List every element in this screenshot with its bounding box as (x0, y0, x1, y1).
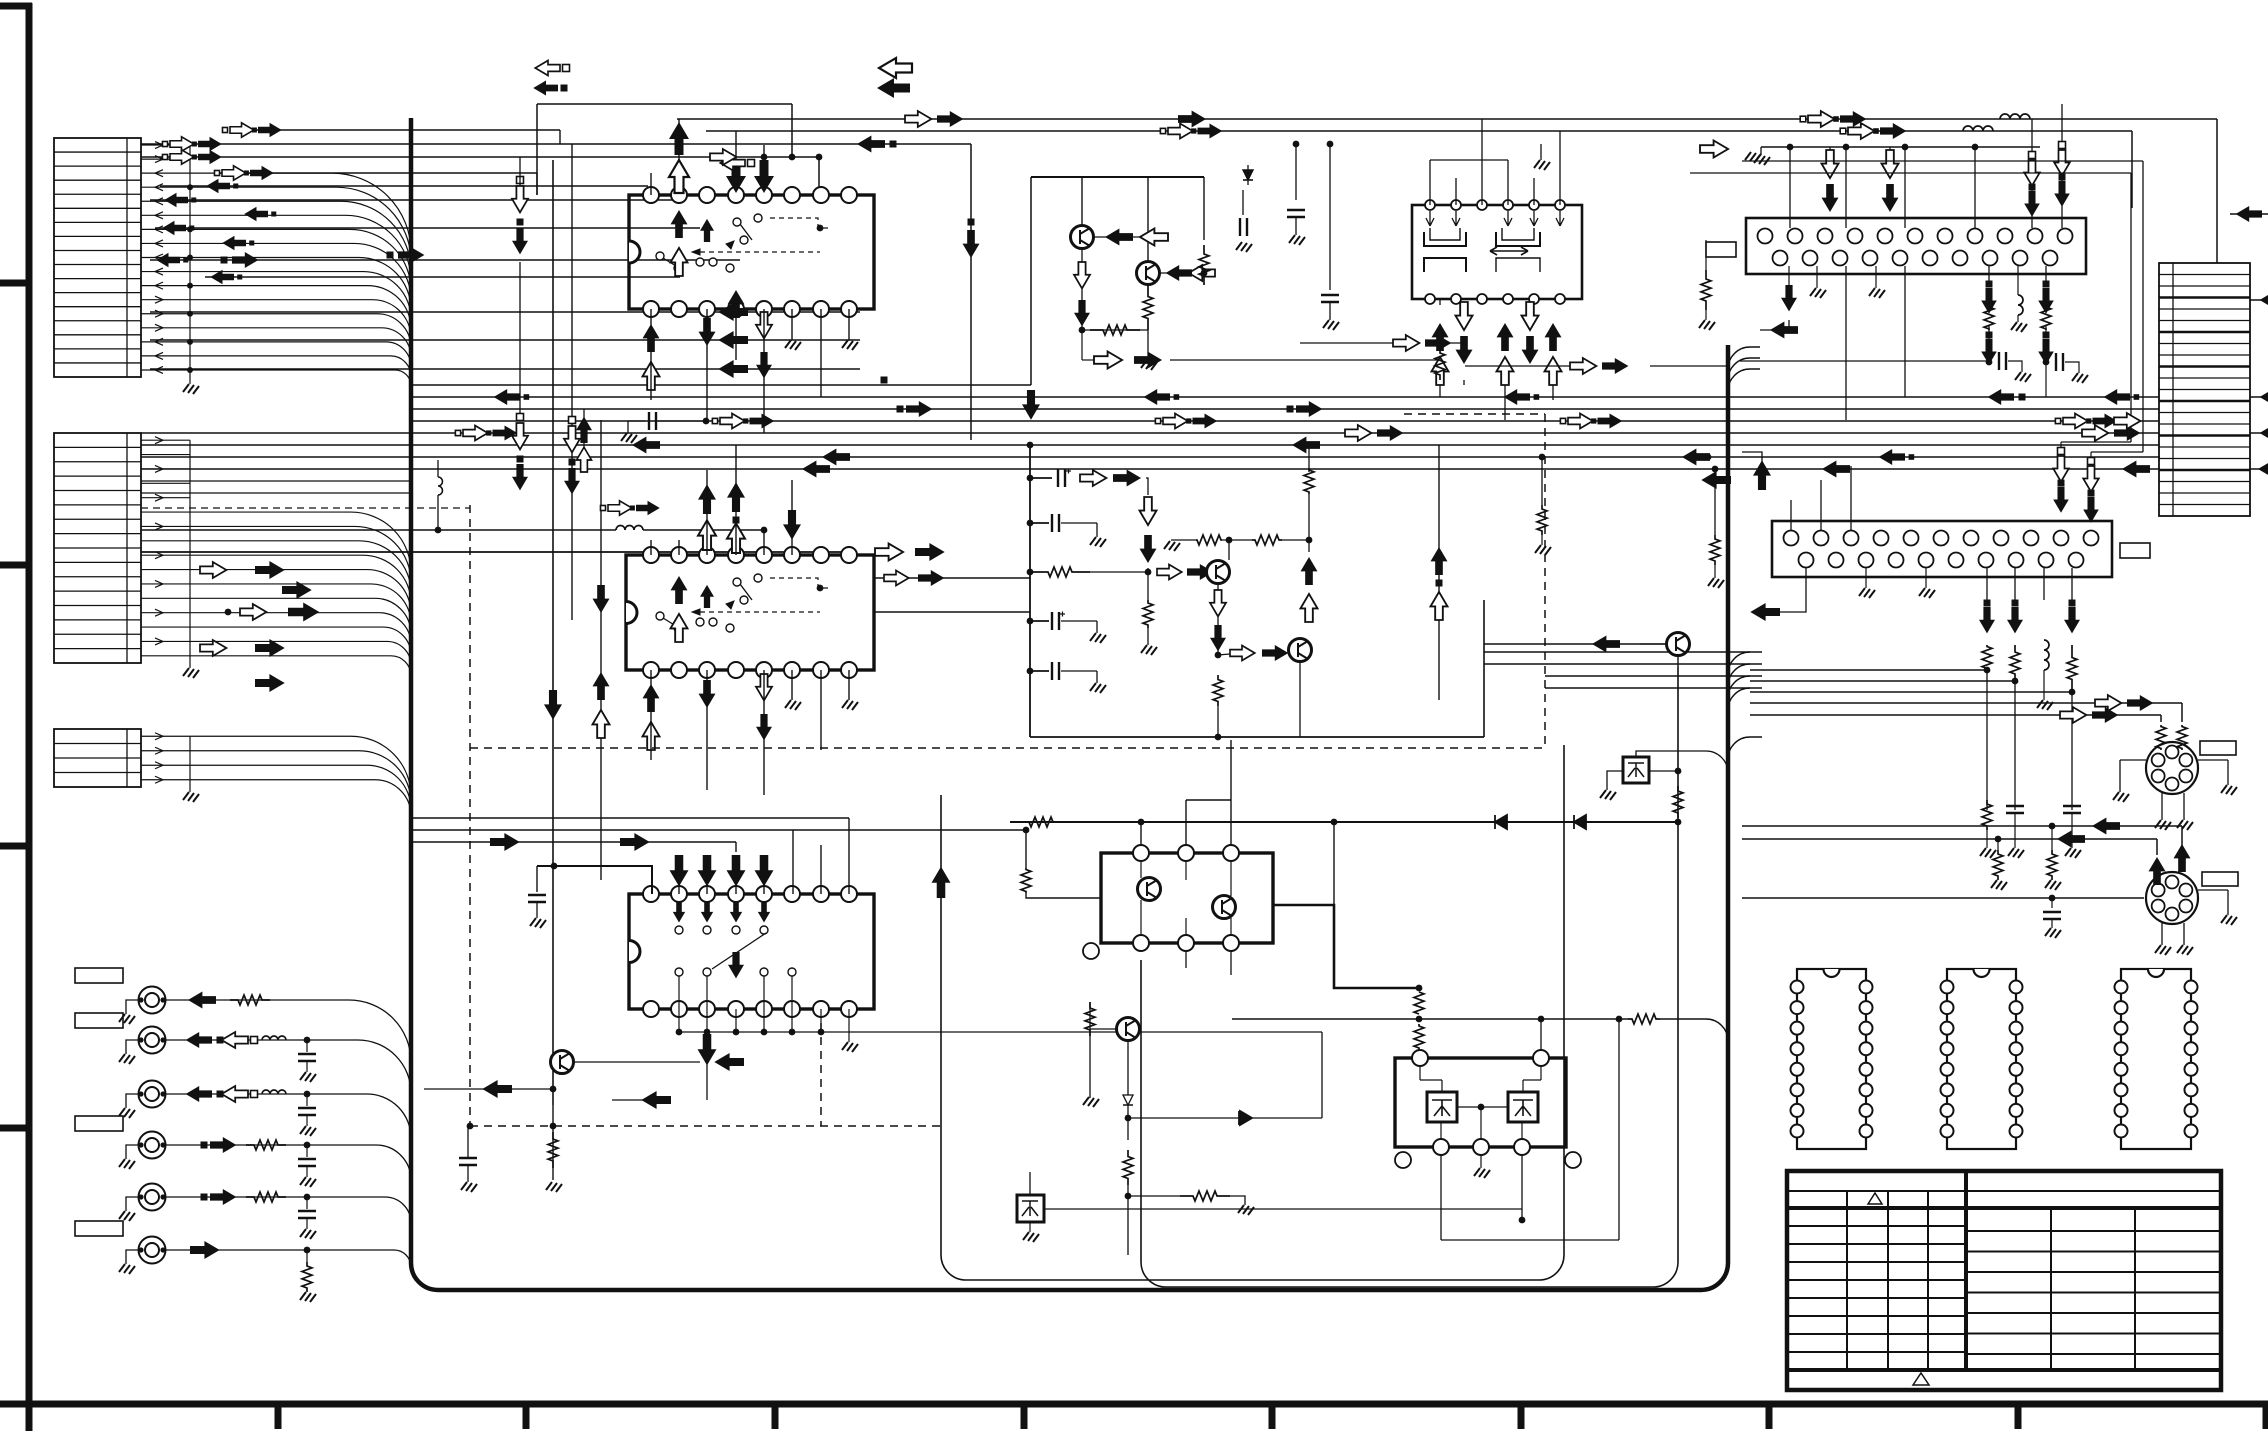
wire CN4 right stubs (2250, 299, 2268, 301)
connector CN3 (54, 729, 141, 787)
wire top right corner stub (2230, 213, 2268, 215)
wire (150, 199, 680, 201)
wire (1418, 1050, 1420, 1058)
wire (1170, 359, 1440, 361)
wire (536, 104, 538, 195)
arrow (1301, 557, 1318, 585)
arrow (2114, 425, 2140, 441)
arrow (482, 1080, 512, 1098)
arrow (726, 160, 746, 193)
arrow (533, 81, 558, 96)
arrow stack x520 lower (517, 414, 524, 421)
arrow (671, 248, 688, 276)
arrow (1822, 184, 1839, 212)
arrow (670, 855, 689, 886)
capacitor (2006, 805, 2024, 807)
arrow (564, 426, 580, 452)
arrow pair (2055, 418, 2060, 423)
wire (150, 339, 860, 341)
arrow vertical runs left of IC1 (517, 177, 524, 184)
arrow (1296, 401, 1322, 417)
column x1309 (1308, 445, 1310, 472)
wire (1146, 478, 1148, 495)
arrow (1144, 389, 1170, 405)
wire (1750, 669, 1987, 671)
resistor (2177, 725, 2187, 750)
wire (735, 131, 737, 160)
capacitor (298, 1053, 316, 1055)
arrow (170, 150, 194, 164)
arrow (463, 426, 488, 441)
arrow (494, 389, 520, 405)
arrow (1230, 646, 1255, 661)
arrow (288, 603, 319, 622)
arrow (240, 604, 266, 620)
resistor (1021, 868, 1031, 893)
opto coupler 1 (1017, 1195, 1044, 1222)
wire (412, 829, 1026, 831)
arrow (512, 423, 528, 449)
wire (574, 1061, 700, 1063)
arrow (1262, 645, 1288, 661)
arrow (1431, 547, 1448, 575)
arrow (593, 585, 610, 613)
wire dashed row (141, 507, 470, 509)
arrow (1178, 111, 1206, 128)
ground (119, 1264, 135, 1274)
resistor (230, 995, 270, 1005)
ground (2072, 373, 2088, 383)
wire (1081, 248, 1083, 330)
wire (150, 311, 860, 313)
arrow (756, 352, 772, 378)
wire cap stub 3 (1027, 668, 1034, 675)
arrow (544, 690, 562, 720)
arrow (1080, 470, 1106, 486)
arrow (1781, 285, 1797, 311)
ground (183, 792, 199, 802)
wire below B (1480, 1155, 1482, 1168)
connector CN2 (54, 433, 141, 663)
arrow (1074, 262, 1090, 288)
arrow (2122, 461, 2150, 478)
capacitor pol top (1027, 475, 1034, 482)
wire above IC4 (1761, 146, 2040, 148)
wire (706, 309, 708, 420)
ground (1083, 1097, 1099, 1107)
wire (1329, 144, 1331, 290)
arrow (201, 1194, 208, 1201)
arrow (2099, 444, 2101, 446)
arrow (1497, 357, 1514, 385)
arrow (1879, 449, 1905, 465)
arrow (932, 867, 951, 898)
ground (1859, 588, 1875, 598)
wire (820, 670, 822, 750)
wire (848, 309, 850, 340)
arrow (1497, 323, 1514, 351)
wire cap stub 2 (1027, 618, 1034, 625)
ground (2037, 700, 2053, 710)
arrow (728, 952, 744, 978)
arrow (222, 1032, 248, 1048)
wire above IC3 (678, 855, 680, 894)
transistor (1071, 226, 1094, 249)
resistor (1982, 800, 1992, 830)
arrow (1129, 816, 1131, 818)
arrow (2093, 414, 2118, 429)
arrow (1682, 449, 1710, 466)
arrow (2064, 607, 2080, 633)
arrow (1134, 352, 1162, 369)
arrow (718, 360, 748, 378)
resistor (2041, 306, 2051, 330)
arrow (1592, 636, 1620, 653)
arrow (2258, 461, 2268, 478)
arrow (783, 510, 801, 540)
wire (1059, 385, 1061, 415)
transistor emitter run (1217, 585, 1219, 655)
wire (763, 530, 765, 555)
wire jack line (163, 1000, 411, 1062)
wire (735, 309, 737, 360)
arrow (700, 219, 714, 242)
capacitor (536, 866, 538, 892)
arrow (756, 674, 772, 700)
arrow (2024, 160, 2040, 186)
arrow (2236, 206, 2262, 222)
wire (1127, 1041, 1129, 1090)
wire (412, 817, 849, 819)
wire (791, 480, 793, 555)
label box (2202, 872, 2238, 886)
wire (141, 551, 845, 553)
arrow (2053, 456, 2069, 482)
resistor (1196, 535, 1222, 545)
ground (2065, 848, 2081, 858)
wire (1750, 680, 2015, 682)
motor M2 (2146, 872, 2198, 924)
resistor (2156, 725, 2166, 750)
wire (650, 309, 652, 400)
IC U6 (1772, 521, 2112, 577)
wire mid box (1029, 445, 1031, 737)
wire main vertical bus (411, 118, 1728, 1290)
arrow (2260, 389, 2268, 405)
resistor (1030, 567, 1090, 577)
arrow (593, 710, 610, 738)
transistor (1289, 639, 1312, 662)
arrow (1345, 425, 1371, 441)
arrow (1882, 150, 1899, 178)
resistor below junction (1147, 572, 1149, 600)
arrow pair (162, 154, 167, 159)
wire CN4 feeds (2100, 268, 2159, 270)
wire (2071, 692, 2073, 810)
wire (1218, 654, 1230, 655)
wire top run 4 (141, 156, 819, 158)
ground (300, 1072, 316, 1082)
arrow (1210, 625, 1226, 651)
arrow (1456, 302, 1473, 330)
wire (1789, 147, 1791, 228)
capacitor (298, 1107, 316, 1109)
ground (2011, 322, 2027, 332)
arrow (671, 210, 688, 238)
arrow (643, 362, 660, 390)
wire (791, 309, 793, 340)
ground (1238, 1205, 1254, 1215)
wire (1059, 943, 1061, 1010)
wire (1740, 360, 1989, 362)
resistor (2047, 850, 2057, 880)
arrow (1301, 594, 1318, 622)
arrow pair (600, 505, 605, 510)
ground (461, 1182, 477, 1192)
wire dashed box (469, 505, 471, 1126)
arrow (593, 672, 610, 700)
ground (1535, 545, 1551, 555)
wire below IC4 (1788, 266, 1790, 285)
arrow (802, 461, 830, 478)
ground (119, 1014, 135, 1024)
arrow (698, 1034, 717, 1065)
revision table (1787, 1171, 2221, 1390)
arrow (671, 576, 688, 604)
wire (678, 540, 680, 555)
capacitor (528, 894, 546, 896)
wire jack line (163, 1250, 411, 1267)
SCR cell (1508, 1092, 1538, 1122)
ground (1289, 235, 1305, 245)
wire inner bundle B (1141, 667, 1678, 1287)
resistor (1199, 245, 1209, 285)
transistor (1207, 561, 1230, 584)
arrow (2095, 695, 2121, 711)
arrow (255, 674, 285, 692)
arrow (186, 1086, 212, 1102)
resistor (302, 1262, 312, 1292)
ground (1164, 541, 1180, 551)
ground (183, 384, 199, 394)
label box (75, 1116, 123, 1131)
wire mid bus 5 (141, 432, 2159, 434)
block A power pack (1101, 853, 1273, 943)
wire (1128, 1195, 1180, 1197)
arrow (877, 78, 910, 98)
ground (2008, 848, 2024, 858)
wire res x1542 (1539, 454, 1546, 461)
wire (2045, 362, 2047, 397)
wire (735, 842, 737, 852)
wire (1988, 325, 1990, 362)
resistor (1143, 600, 1153, 628)
wire (1333, 822, 1335, 905)
arrow (881, 377, 888, 384)
arrow (576, 417, 592, 443)
arrow (2054, 181, 2070, 207)
wire (1433, 342, 1464, 344)
wire (612, 1099, 671, 1101)
capacitor (1051, 662, 1053, 680)
arrow (1140, 535, 1157, 563)
arrow (1504, 389, 1530, 405)
arrow (198, 137, 222, 151)
wire y849 (821, 849, 941, 860)
ground (2045, 928, 2061, 938)
ground (842, 700, 858, 710)
arrow (2058, 448, 2065, 455)
wire (1295, 144, 1297, 200)
arrow (698, 855, 717, 886)
wire (1649, 770, 1678, 772)
arrow (512, 228, 528, 254)
arrow (754, 160, 774, 193)
ground (2221, 785, 2237, 795)
arrow (1432, 357, 1449, 385)
ground (530, 918, 546, 928)
wire (155, 227, 700, 229)
wire vertical x572 (571, 144, 573, 620)
wire (1845, 266, 1847, 420)
wire (1484, 643, 1666, 645)
arrow (2063, 414, 2088, 429)
resistor (1252, 535, 1282, 545)
capacitor (1287, 209, 1305, 211)
ground (2015, 372, 2031, 382)
arrow (1700, 141, 1728, 158)
diode zener (1243, 170, 1253, 180)
label box (75, 968, 123, 983)
arrow (698, 484, 716, 514)
wire mid bus 7 (141, 456, 2160, 458)
wire (1750, 691, 2072, 693)
wire (2014, 681, 2016, 810)
opto coupler 2 (1623, 757, 1649, 783)
arrow pair (1155, 418, 1160, 423)
transistor (1117, 1018, 1140, 1041)
wire (1029, 1172, 1031, 1195)
wire motor2 (2146, 889, 2228, 891)
arrow (643, 722, 660, 750)
triangle mark (1868, 1193, 1882, 1204)
arrow (222, 1086, 248, 1102)
wire (1865, 568, 1867, 588)
wire (536, 173, 538, 195)
arrow x572 (569, 417, 576, 424)
wire CN3 pin stubs (141, 735, 190, 737)
arrow (643, 684, 660, 712)
ground (785, 340, 801, 350)
capacitor (1321, 294, 1339, 296)
IC DIP1 (1797, 969, 1866, 1149)
wire y1019 run (1232, 1018, 1628, 1020)
arrow (250, 166, 274, 180)
wire (848, 670, 850, 700)
wire (820, 845, 822, 894)
arrow (1753, 460, 1771, 490)
wire motor1 (2120, 759, 2146, 761)
diode (1495, 815, 1507, 829)
wire x1678 column (1677, 656, 1679, 667)
arrow mid bus right (897, 406, 904, 413)
resistor (1143, 285, 1153, 330)
arrow (643, 324, 660, 352)
wire (1845, 147, 1847, 228)
arrow (1981, 288, 1997, 314)
arrow (1522, 302, 1539, 330)
arrow pair (455, 430, 460, 435)
arrow (905, 111, 931, 127)
arrow (255, 639, 285, 657)
RCA jack J6 (139, 1237, 166, 1264)
arrow (164, 193, 188, 207)
wire (791, 670, 793, 700)
arrow pair (1840, 128, 1846, 134)
ground (785, 700, 801, 710)
arrow (255, 561, 285, 579)
arrow (1568, 414, 1593, 429)
capacitor on mid bus (627, 421, 629, 433)
wire (1974, 147, 1976, 228)
wire (874, 611, 1030, 613)
inductor (262, 1090, 286, 1094)
arrow (2114, 413, 2140, 429)
connector CN4 (2159, 263, 2250, 516)
arrows below IC5 (1984, 600, 1991, 607)
ground (1236, 242, 1252, 252)
wire arrow stack right IC5 (1742, 160, 2143, 162)
ground (1869, 288, 1885, 298)
wire (2181, 703, 2183, 722)
arrow (1193, 414, 1218, 429)
arrow (1187, 564, 1213, 580)
IC U3 (629, 894, 874, 1009)
arrow (727, 855, 746, 886)
wire (1484, 663, 1750, 665)
capacitor (298, 1210, 316, 1212)
label box (2120, 543, 2150, 558)
wire (1875, 266, 1877, 288)
wire (537, 866, 652, 894)
arrow (884, 571, 909, 586)
wire diode run (1010, 821, 1678, 823)
wire (1441, 1239, 1619, 1241)
arrow (714, 1053, 744, 1071)
arrow (186, 1032, 212, 1048)
arrow (2083, 466, 2099, 492)
ground (119, 1108, 135, 1118)
capacitor (298, 1158, 316, 1160)
capacitor (1051, 514, 1053, 532)
arrow (641, 1091, 671, 1109)
arrow (2060, 707, 2086, 723)
wire (205, 276, 680, 278)
arrow (170, 137, 194, 151)
resistor (246, 1192, 286, 1202)
arrow (2149, 857, 2166, 885)
resistor (1628, 1014, 1660, 1024)
arrow (282, 581, 312, 599)
arrow (230, 123, 254, 137)
arrow pair (1160, 128, 1165, 133)
wire (1986, 670, 1988, 810)
wire (1750, 714, 2161, 716)
wire (1090, 1028, 1116, 1030)
arrow (857, 136, 885, 153)
arrow (710, 149, 736, 165)
arrow (2088, 458, 2095, 465)
